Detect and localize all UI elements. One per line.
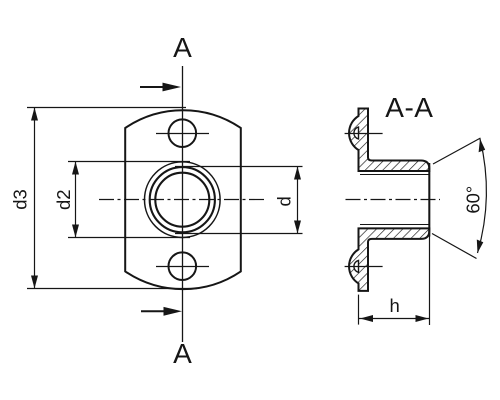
d2 arrow down <box>72 225 79 238</box>
dimple bottom inner arc <box>354 260 359 272</box>
thread line top <box>360 174 429 176</box>
hole circle <box>155 173 209 227</box>
60 arc arrow bottom <box>477 240 484 254</box>
svg-text:60°: 60° <box>463 186 484 214</box>
dimple bottom axis line <box>345 266 383 268</box>
section arrow bottom <box>141 307 182 316</box>
dimension d2 line <box>75 162 77 238</box>
small hole bottom centerline <box>156 266 209 268</box>
horizontal centerline front view <box>99 199 265 201</box>
dimension d2 extension bottom <box>68 237 190 239</box>
dimension d3 line <box>34 108 36 289</box>
dimple top axis line <box>345 133 383 135</box>
d2 arrow up <box>72 162 79 175</box>
small hole bottom <box>169 252 197 280</box>
d arrow up <box>294 167 301 180</box>
collar circle d2 <box>145 162 221 238</box>
dimension h extension right <box>429 171 431 325</box>
dimension d line <box>297 167 299 234</box>
section centerline <box>346 199 441 201</box>
plate outline <box>125 110 241 289</box>
thread line bottom <box>360 224 429 226</box>
svg-text:d2: d2 <box>53 189 74 210</box>
svg-text:A-A: A-A <box>385 92 433 123</box>
svg-text:A: A <box>173 338 192 369</box>
dimension d3 extension top <box>27 107 186 109</box>
d3 arrow down <box>31 276 38 289</box>
d arrow down <box>294 221 301 234</box>
svg-text:d: d <box>274 196 295 206</box>
60 deg arc <box>478 139 487 253</box>
svg-text:h: h <box>389 295 399 316</box>
dimension h line <box>359 318 430 320</box>
section cross-section top half (hatched) <box>349 109 429 172</box>
dimension d extension top <box>175 166 303 168</box>
thread circle d <box>150 167 215 232</box>
svg-text:d3: d3 <box>10 189 31 210</box>
section arrow top <box>140 83 181 92</box>
h arrow right <box>416 315 429 322</box>
section cross-section bottom half (hatched) <box>349 228 429 291</box>
dimple top inner arc <box>354 127 359 139</box>
d3 arrow up <box>31 108 38 121</box>
60 deg line top <box>433 138 481 164</box>
small hole top <box>169 119 197 147</box>
60 deg line bottom <box>432 234 477 259</box>
dimension h extension left <box>358 295 360 325</box>
60 arc arrow top <box>479 139 486 152</box>
dimension d3 extension bottom <box>27 288 197 290</box>
svg-text:A: A <box>173 32 192 63</box>
tube end face edge <box>428 163 430 237</box>
small hole top centerline <box>156 133 209 135</box>
dimension d2 extension top <box>68 161 190 163</box>
section line A-A vertical <box>182 66 184 342</box>
dimension d extension bottom <box>175 233 303 235</box>
h arrow left <box>360 315 373 322</box>
